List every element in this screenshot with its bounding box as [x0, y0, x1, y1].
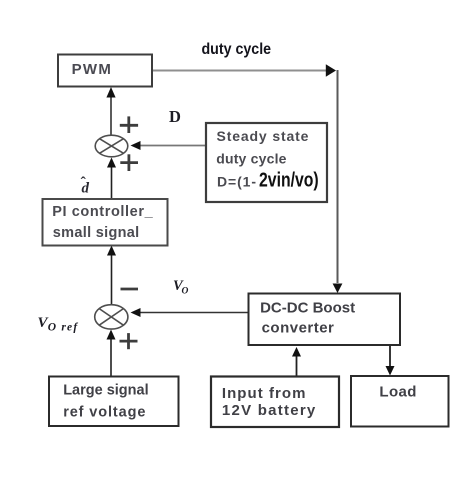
svg-text:duty cycle: duty cycle: [202, 40, 272, 58]
svg-text:duty cycle: duty cycle: [216, 151, 286, 167]
svg-text:Input from: Input from: [222, 385, 307, 402]
svg-text:ref voltage: ref voltage: [63, 405, 146, 421]
svg-text:D=(1-: D=(1-: [217, 174, 257, 190]
svg-text:small signal: small signal: [53, 225, 140, 241]
svg-text:D: D: [169, 107, 181, 126]
svg-text:ˆ: ˆ: [81, 174, 87, 191]
svg-text:DC-DC Boost: DC-DC Boost: [260, 300, 355, 317]
svg-text:2vin/vo): 2vin/vo): [259, 169, 319, 191]
svg-text:12V battery: 12V battery: [222, 402, 317, 419]
svg-text:PWM: PWM: [72, 61, 113, 78]
svg-text:converter: converter: [262, 320, 335, 337]
svg-text:Steady state: Steady state: [217, 128, 310, 144]
svg-text:PI controller_: PI controller_: [52, 204, 153, 220]
svg-text:Load: Load: [379, 384, 416, 401]
svg-text:Large signal: Large signal: [63, 383, 148, 399]
svg-text:O ref: O ref: [48, 322, 79, 334]
svg-text:O: O: [182, 287, 189, 297]
